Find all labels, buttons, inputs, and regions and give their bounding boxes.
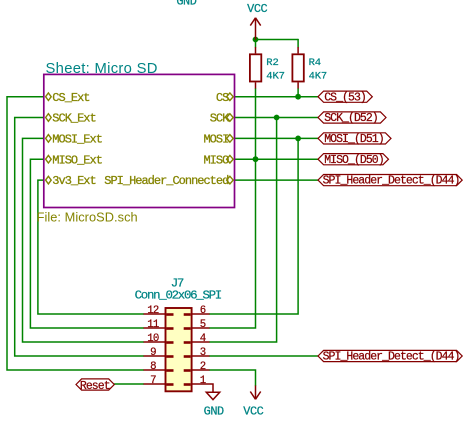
svg-text:SCK_Ext: SCK_Ext — [52, 112, 95, 126]
svg-text:11: 11 — [147, 319, 159, 331]
svg-text:Sheet: Micro SD: Sheet: Micro SD — [46, 61, 158, 77]
svg-text:GND: GND — [176, 0, 196, 9]
svg-text:VCC: VCC — [247, 2, 267, 16]
svg-text:CS_(53): CS_(53) — [324, 91, 366, 104]
svg-text:4K7: 4K7 — [266, 70, 284, 82]
svg-text:12: 12 — [147, 305, 159, 317]
svg-text:SPI_Header_Connected: SPI_Header_Connected — [104, 174, 229, 188]
svg-text:6: 6 — [200, 305, 206, 317]
svg-text:8: 8 — [150, 361, 156, 373]
svg-text:MOSI: MOSI — [203, 133, 228, 147]
svg-text:MISO_(D50): MISO_(D50) — [324, 154, 384, 167]
svg-text:MISO_Ext: MISO_Ext — [52, 153, 102, 167]
svg-text:CS_Ext: CS_Ext — [52, 91, 89, 105]
svg-text:R2: R2 — [266, 57, 278, 69]
svg-text:SCK_(D52): SCK_(D52) — [324, 112, 378, 125]
svg-text:1: 1 — [200, 375, 206, 387]
svg-text:4: 4 — [200, 333, 206, 345]
svg-text:SCK: SCK — [210, 112, 230, 126]
svg-text:3v3_Ext: 3v3_Ext — [52, 174, 95, 188]
svg-text:SPI_Header_Detect_(D44): SPI_Header_Detect_(D44) — [323, 175, 460, 188]
svg-text:9: 9 — [150, 347, 156, 359]
svg-text:SPI_Header_Detect_(D44): SPI_Header_Detect_(D44) — [323, 351, 460, 364]
svg-text:4K7: 4K7 — [309, 70, 327, 82]
svg-text:VCC: VCC — [243, 404, 263, 418]
svg-text:3: 3 — [200, 347, 206, 359]
svg-text:CS: CS — [216, 91, 229, 105]
svg-text:MOSI_Ext: MOSI_Ext — [52, 133, 102, 147]
svg-text:Reset: Reset — [80, 380, 110, 393]
svg-text:GND: GND — [204, 404, 224, 418]
svg-text:Conn_02x06_SPI: Conn_02x06_SPI — [135, 288, 222, 302]
svg-text:2: 2 — [200, 361, 206, 373]
svg-text:File: MicroSD.sch: File: MicroSD.sch — [37, 209, 138, 224]
svg-text:R4: R4 — [309, 57, 321, 69]
svg-text:7: 7 — [150, 375, 156, 387]
svg-text:10: 10 — [147, 333, 159, 345]
svg-text:MOSI_(D51): MOSI_(D51) — [324, 133, 384, 146]
svg-text:5: 5 — [200, 319, 206, 331]
svg-text:MISO: MISO — [203, 153, 229, 167]
